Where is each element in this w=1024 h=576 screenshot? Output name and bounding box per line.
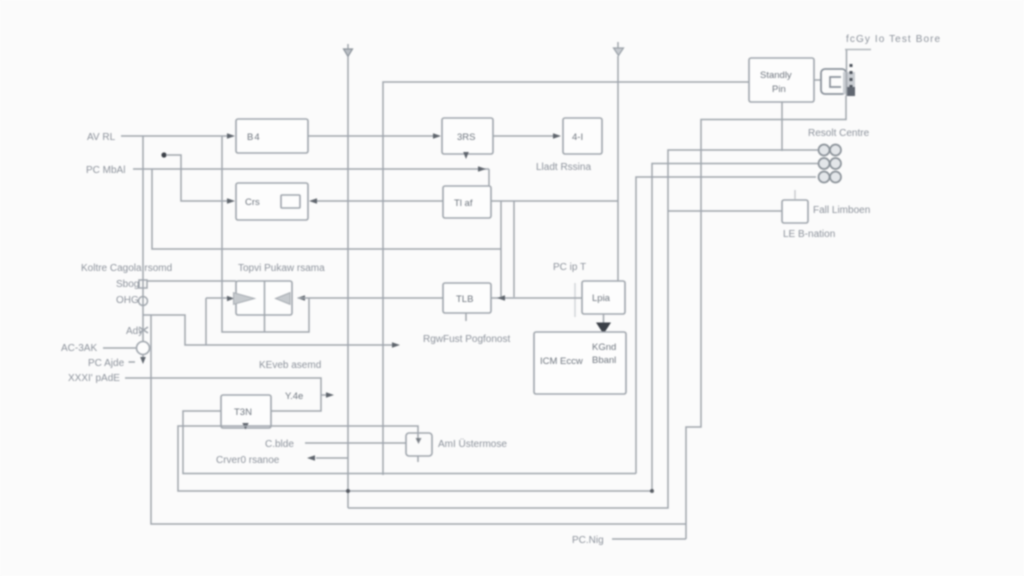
block B4 [236,119,308,153]
block Fall Limiter [782,200,808,223]
svg-text:T3N: T3N [234,407,252,418]
block Lpia [582,281,625,314]
svg-text:OHG: OHG [116,295,139,306]
block shuttle valve [236,281,292,315]
leader line PC ip T [574,283,576,317]
arrow below circle [142,355,144,359]
arrow Lpia to ICM [603,314,605,323]
wire stub x501 [500,201,502,297]
wire vertical net A x348 [347,56,349,508]
valve arrow right [234,293,255,305]
block 4I [563,118,602,154]
svg-text:Lpia: Lpia [592,293,611,304]
svg-text:Crs: Crs [245,197,260,208]
arrow into block Cr [227,198,235,204]
arrow into block 4I [553,133,561,139]
small circle on line [139,297,148,306]
dash after PC Ajde [129,361,136,363]
wire TL4f to Cr inner with left arrow [316,200,443,202]
svg-text:Bbanl: Bbanl [592,355,616,366]
wire C blde to And gate [305,442,406,444]
stub valve bottom [264,315,266,332]
antenna symbol B [614,48,624,56]
svg-text:Y.4e: Y.4e [285,391,303,402]
block T3N [221,395,271,428]
wire B4 to 3RS [308,135,434,137]
arrow end y345 [392,342,400,348]
svg-text:Koltre Cagola rsomd: Koltre Cagola rsomd [81,263,172,274]
wire link box to connector [814,79,821,81]
svg-text:C.blde: C.blde [265,439,294,450]
wire pAdE loop to T3N [125,378,321,411]
connector plug body [821,69,846,94]
wire standby drop [781,102,783,151]
wire vertical x143 [142,136,144,341]
svg-text:TLB: TLB [456,294,473,305]
arrow into block B4 [227,133,235,139]
wire rsanoe arrow from net A [316,457,348,459]
svg-text:AmI Üstermose: AmI Üstermose [438,438,507,450]
svg-text:PC MbAl: PC MbAl [86,165,125,176]
svg-text:4-I: 4-I [572,132,583,143]
svg-text:XXXI' pAdE: XXXI' pAdE [68,373,120,384]
connector pin dots [850,64,853,67]
block TL4f [443,186,491,218]
wire row3 net [636,177,816,474]
svg-text:PC.Nig: PC.Nig [572,535,604,546]
svg-text:KGnd: KGnd [592,342,616,353]
svg-text:Sbog: Sbog [116,279,139,290]
wire vertical net B x618 [617,56,619,281]
wire PC MbAl [133,168,489,170]
tick marks at Ady [139,327,148,333]
arrow below T3N [242,423,248,430]
svg-text:Pin: Pin [772,84,786,95]
svg-text:PC Ajde: PC Ajde [88,358,125,369]
valve pair 1 [819,145,830,156]
svg-text:AV RL: AV RL [87,132,116,143]
svg-text:AC-3AK: AC-3AK [61,343,97,354]
svg-text:RgwFust Pogfonost: RgwFust Pogfonost [423,334,510,345]
wire from label to bus [846,50,848,96]
connector shade [843,72,855,94]
label leader line [845,49,871,51]
wire into valve [206,297,232,299]
junction dot row2 corner [650,489,654,493]
wire gate input riser [205,298,207,345]
node start dot [161,152,166,157]
stub arrow below 3RS [465,154,467,157]
wire TLB to Lpia [491,297,582,299]
wire AV RL input [121,135,227,137]
wire dot to Cr box [166,155,228,201]
svg-text:Tl af: Tl af [454,198,473,209]
block Cr inner port [281,195,300,208]
wire bus y249 [152,169,501,249]
junction dot row2 x348 [346,489,350,493]
wire left loop [151,315,686,524]
svg-text:Crver0 rsanoe: Crver0 rsanoe [216,455,280,466]
svg-text:Resolt Centre: Resolt Centre [808,128,870,139]
valve pair 2 [819,158,830,169]
svg-text:KEveb asemd: KEveb asemd [259,360,321,371]
wire T3N input net row3 [183,411,636,474]
wire corner into TL4f top [488,169,490,186]
block Standby Pin [749,58,814,102]
block TLB [443,283,491,313]
connector plug inner contact [830,77,841,87]
wire row2 net [652,164,818,492]
stub below TLB [465,313,467,321]
block 3RS [442,118,493,154]
svg-text:fcGy Io Test Bore: fcGy Io Test Bore [846,34,941,45]
svg-text:Topvi Pukaw rsama: Topvi Pukaw rsama [238,263,325,274]
wire top bus y83 [383,82,749,475]
svg-text:B4: B4 [247,132,261,143]
wire PC Nig [612,538,686,540]
wire Sbog to gate R top [147,280,236,282]
wire vertical x222 [222,136,309,332]
wire TLB left to gates [309,297,443,299]
wire AC-3AK to circle [103,347,136,349]
svg-text:Lladt Rssina: Lladt Rssina [536,162,591,173]
valve arrow left [276,293,291,305]
wire And gate net row2 [178,426,652,491]
antenna symbol A [344,49,353,57]
block ICM [534,332,626,394]
arrow on PC MbAl wire [478,166,486,172]
wire branch to Fall Limiter [668,210,782,212]
wire row1 net [348,150,818,508]
svg-text:ICM Eccw: ICM Eccw [540,356,583,367]
svg-text:Standly: Standly [760,70,792,81]
svg-text:LE B-nation: LE B-nation [783,229,835,240]
wire staircase [143,315,393,345]
node circle AC [137,342,150,355]
wire stub x514 [513,201,515,297]
wire TL4f output right [491,200,618,202]
valve pair 3 [819,172,830,183]
tick square on line [139,280,147,288]
arrow out of Y4e loop [321,394,327,396]
wire 3RS to 4I [493,135,554,137]
svg-text:Fall Limboen: Fall Limboen [813,205,870,216]
block Cr [236,183,308,220]
svg-text:3RS: 3RS [457,132,475,143]
wire connector drop [686,96,846,539]
svg-text:PC ip T: PC ip T [553,262,586,273]
arrow into block 3RS [433,133,441,139]
stub above Fall Limiter [794,190,796,199]
connector dark base [846,87,855,96]
block And gate [406,433,432,456]
